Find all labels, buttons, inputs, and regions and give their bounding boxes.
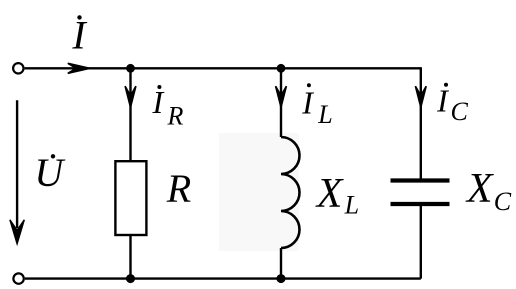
terminal (bottom-left input) [13, 273, 23, 283]
wire bottom bus [25, 277, 421, 279]
node junction bottom R [126, 274, 135, 283]
capacitor XC top plate [391, 178, 450, 182]
wire resistor branch upper [129, 68, 131, 161]
resistor R body [115, 161, 146, 235]
node junction bottom L [277, 274, 286, 283]
wire inductor branch upper [280, 68, 282, 137]
arrow current IC [415, 86, 426, 107]
svg-text:L: L [344, 190, 359, 219]
wire inductor branch lower [280, 248, 282, 279]
wire top bus [25, 67, 421, 69]
svg-text:X: X [465, 166, 495, 212]
svg-text:L: L [317, 100, 332, 129]
svg-text:I: I [151, 84, 164, 120]
capacitor XC bottom plate [391, 202, 450, 206]
arrow current I (top wire) [68, 63, 90, 73]
svg-text:R: R [167, 102, 184, 131]
arrow voltage U (left side) [16, 100, 18, 228]
svg-text:C: C [494, 187, 512, 216]
svg-text:X: X [315, 171, 345, 217]
wire right branch lower [420, 206, 422, 279]
arrow current IR [125, 86, 136, 107]
svg-text:I: I [301, 85, 314, 121]
wire right branch upper [420, 67, 422, 178]
arrow current IL [276, 86, 287, 107]
svg-text:U: U [34, 150, 66, 195]
node junction top L [277, 64, 286, 73]
background artifact block [219, 133, 299, 251]
node junction top R [126, 64, 135, 73]
svg-text:R: R [166, 166, 191, 211]
svg-text:C: C [451, 97, 469, 126]
inductor XL coil [281, 137, 300, 248]
wire resistor branch lower [129, 235, 131, 279]
terminal (top-left input) [13, 63, 23, 73]
svg-text:I: I [436, 82, 449, 118]
